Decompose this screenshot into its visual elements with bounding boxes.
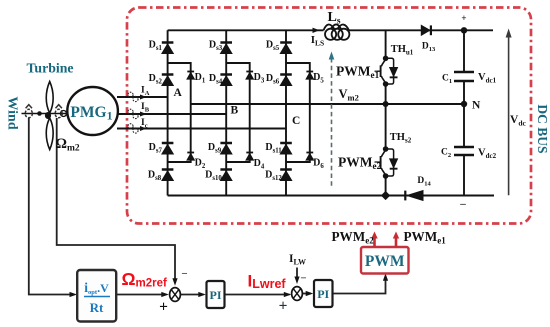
- svg-text:Turbine: Turbine: [26, 61, 73, 76]
- svg-text:N: N: [472, 100, 481, 112]
- svg-text:–: –: [459, 198, 466, 210]
- svg-text:−: −: [300, 273, 306, 285]
- svg-text:+: +: [461, 13, 466, 23]
- svg-text:PMG1: PMG1: [70, 104, 112, 123]
- svg-text:PI: PI: [317, 287, 329, 301]
- svg-text:+: +: [159, 299, 168, 316]
- svg-text:B: B: [231, 105, 239, 117]
- svg-text:C: C: [292, 115, 300, 127]
- svg-text:DC BUS: DC BUS: [535, 104, 550, 153]
- svg-text:−: −: [181, 268, 187, 280]
- svg-text:PWM: PWM: [365, 253, 405, 270]
- svg-text:Wind: Wind: [5, 96, 20, 129]
- svg-text:PI: PI: [210, 288, 222, 302]
- svg-text:Rt: Rt: [90, 300, 104, 315]
- svg-text:+: +: [279, 298, 288, 315]
- svg-text:iopt.V: iopt.V: [84, 280, 109, 296]
- svg-text:A: A: [174, 87, 183, 99]
